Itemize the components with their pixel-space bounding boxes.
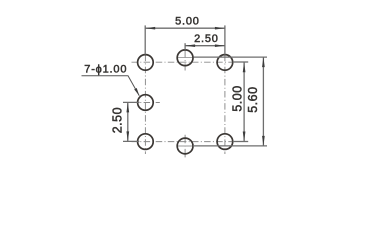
- wire extension line right 5.60 top: [194, 56, 267, 58]
- wire center mark bottom-middle hole horizontal: [177, 145, 194, 147]
- wire centerline bottom row (dash-dot): [132, 141, 234, 143]
- dimension line 2.50 top: [185, 45, 225, 47]
- wire extension line right (top dims): [224, 25, 226, 54]
- hole circle left-middle: [138, 95, 154, 111]
- wire centerline top row (dash-dot): [132, 61, 234, 63]
- wire center mark bottom-middle hole vertical: [184, 135, 186, 160]
- svg-text:5.00: 5.00: [175, 16, 200, 28]
- wire center mark top-middle hole horizontal: [177, 57, 194, 59]
- wire center mark left-middle hole horizontal: [132, 102, 160, 104]
- hole circle top-left: [138, 55, 154, 71]
- dimension line 2.50 left vertical: [127, 102, 129, 141]
- hole circle top-right: [217, 55, 233, 71]
- leader arrowhead: [134, 88, 139, 96]
- wire extension line right 5.60 bottom: [193, 145, 267, 147]
- wire extension line right 5.00 top: [233, 61, 249, 63]
- wire extension line left 2.50 bottom: [123, 140, 139, 142]
- svg-text:2.50: 2.50: [194, 33, 219, 45]
- hole circle bottom-middle: [177, 138, 193, 154]
- wire leader underline 7-phi1.00: [82, 76, 140, 96]
- dimension line 5.00 right vertical: [243, 62, 245, 141]
- dimension line 5.60 right vertical: [262, 57, 264, 146]
- hole circle bottom-left: [138, 134, 154, 150]
- wire extension line right 5.00 bottom: [233, 141, 249, 143]
- svg-text:2.50: 2.50: [110, 107, 124, 133]
- dimension line 5.00 top: [145, 27, 225, 29]
- svg-text:7-ϕ1.00: 7-ϕ1.00: [84, 63, 127, 75]
- svg-text:5.60: 5.60: [246, 86, 260, 112]
- hole circle top-middle: [177, 50, 193, 66]
- wire centerline right column (dash-dot): [224, 55, 226, 154]
- wire center mark top-middle hole vertical: [184, 50, 186, 71]
- wire centerline left column (dash-dot): [144, 55, 146, 154]
- wire extension line left 2.50 top: [123, 101, 140, 103]
- wire extension line left (top dim 5.00): [144, 25, 146, 54]
- hole circle bottom-right: [217, 134, 233, 150]
- svg-text:5.00: 5.00: [231, 85, 245, 111]
- wire extension line middle (top dim 2.50): [184, 43, 186, 50]
